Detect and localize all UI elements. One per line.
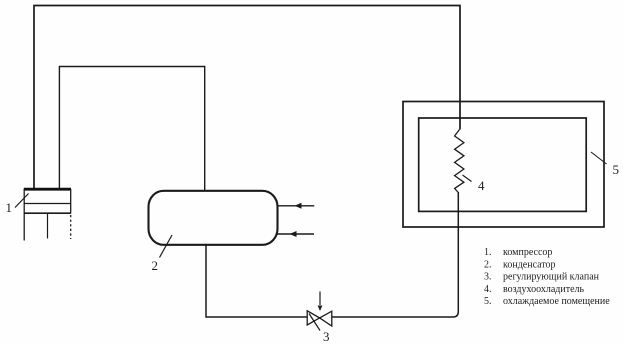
svg-text:3.: 3. [484, 272, 492, 283]
svg-text:1.: 1. [484, 247, 492, 258]
svg-text:4.: 4. [484, 284, 492, 295]
svg-text:конденсатор: конденсатор [503, 259, 556, 270]
svg-text:воздухоохладитель: воздухоохладитель [503, 284, 585, 295]
svg-text:компрессор: компрессор [503, 247, 552, 258]
svg-text:5.: 5. [484, 296, 492, 307]
svg-text:2: 2 [152, 258, 159, 273]
svg-text:охлаждаемое помещение: охлаждаемое помещение [503, 296, 610, 307]
svg-text:1: 1 [6, 200, 13, 215]
svg-text:3: 3 [323, 329, 330, 344]
svg-text:2.: 2. [484, 259, 492, 270]
svg-text:4: 4 [478, 178, 485, 193]
svg-text:регулирующий клапан: регулирующий клапан [503, 272, 600, 283]
svg-text:5: 5 [613, 162, 620, 177]
